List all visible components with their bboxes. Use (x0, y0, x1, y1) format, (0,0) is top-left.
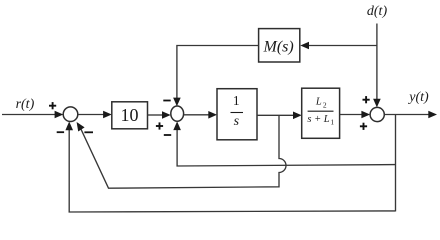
minus sign at S2 bottom-left (164, 134, 171, 136)
integrator block 1/s (217, 89, 257, 140)
wire S3 to y(t) output (384, 114, 429, 116)
feedback wire x (integrator output) down with hop over y-feedback, left, then diagonal into S1 (80, 115, 287, 188)
observer gain block L2/(s+L1) (302, 88, 340, 138)
wire integrator to block L2/(s+L1), branch node at x=279 (257, 114, 294, 116)
gain block "10" (112, 102, 148, 129)
summing junction S3 (370, 107, 384, 121)
svg-text:1: 1 (330, 118, 334, 127)
summing junction S2 (171, 106, 184, 121)
svg-text:10: 10 (121, 105, 139, 125)
wire S2 to integrator block (184, 114, 210, 116)
block M(s) (259, 29, 300, 62)
feedback wire y to S2: left along y=165.3 then up into S2 bottom (177, 128, 395, 166)
svg-text:L: L (315, 97, 322, 108)
plus sign at S3 bottom-left (360, 125, 367, 127)
svg-text:y(t): y(t) (407, 90, 429, 105)
wire d(t) branch to M(s) input (308, 45, 377, 47)
wire output branch down from node at (395.5,114.5) (395, 115, 397, 212)
wire d(t) down into S3 (376, 24, 378, 101)
svg-text:s: s (234, 114, 240, 129)
feedback wire y to S1: bottom run then up into S1 bottom (69, 128, 395, 212)
wire r(t) to summing junction S1 (2, 114, 56, 116)
plus sign at S1 top-left (49, 105, 56, 107)
svg-text:M(s): M(s) (262, 38, 293, 55)
minus sign at S1 bottom-right (84, 131, 93, 133)
wire S1 to gain block 10 (78, 114, 104, 116)
wire M(s) output left then down into S2 top (177, 46, 259, 100)
plus sign at S3 top-left (363, 99, 370, 101)
summing junction S1 (63, 107, 78, 122)
minus sign at S1 bottom-left (57, 131, 64, 133)
svg-text:1: 1 (233, 93, 240, 108)
wire 10 to summing junction S2 (148, 114, 164, 116)
svg-text:r(t): r(t) (16, 97, 35, 112)
wire L2 block to summing junction S3 (340, 114, 363, 116)
minus sign at S2 top-left (163, 100, 170, 102)
svg-text:d(t): d(t) (367, 4, 388, 19)
plus sign at S2 left-bottom (156, 125, 163, 127)
svg-text:2: 2 (323, 101, 327, 110)
svg-text:s + L: s + L (307, 114, 329, 125)
